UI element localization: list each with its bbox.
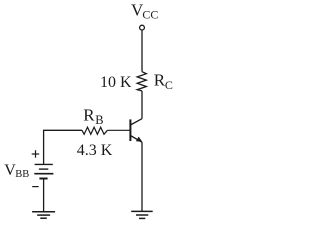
wire emitter to ground [141, 142, 143, 211]
wire RB to VBB corner [44, 130, 82, 164]
source VBB label [4, 162, 29, 180]
VCC terminal circle [140, 25, 145, 30]
svg-text:10 K: 10 K [100, 74, 132, 91]
wire VCC to RC [141, 30, 143, 71]
transistor Q1 emitter lead [130, 136, 142, 143]
transistor Q1 base bar [129, 119, 131, 141]
svg-text:CC: CC [142, 7, 158, 21]
svg-text:C: C [165, 78, 173, 92]
transistor Q1 collector lead [130, 119, 142, 125]
wire RC to collector [141, 91, 143, 119]
svg-text:R: R [83, 106, 95, 125]
resistor RC ref label [154, 70, 173, 92]
battery VBB plates [34, 164, 53, 178]
transistor Q1 emitter arrow [136, 137, 142, 142]
resistor RB ref label [83, 106, 103, 127]
svg-text:BB: BB [15, 169, 29, 180]
ground left [32, 212, 55, 219]
wire battery to ground [43, 179, 45, 212]
battery VBB minus sign [32, 186, 39, 188]
resistor RB zigzag [82, 127, 107, 134]
ground right [131, 211, 153, 218]
battery VBB plus sign [32, 150, 40, 158]
resistor RC zigzag [137, 72, 146, 91]
svg-text:B: B [95, 113, 103, 127]
node VCC label [131, 1, 158, 22]
wire base to RB [107, 129, 130, 131]
svg-text:4.3 K: 4.3 K [77, 142, 113, 159]
